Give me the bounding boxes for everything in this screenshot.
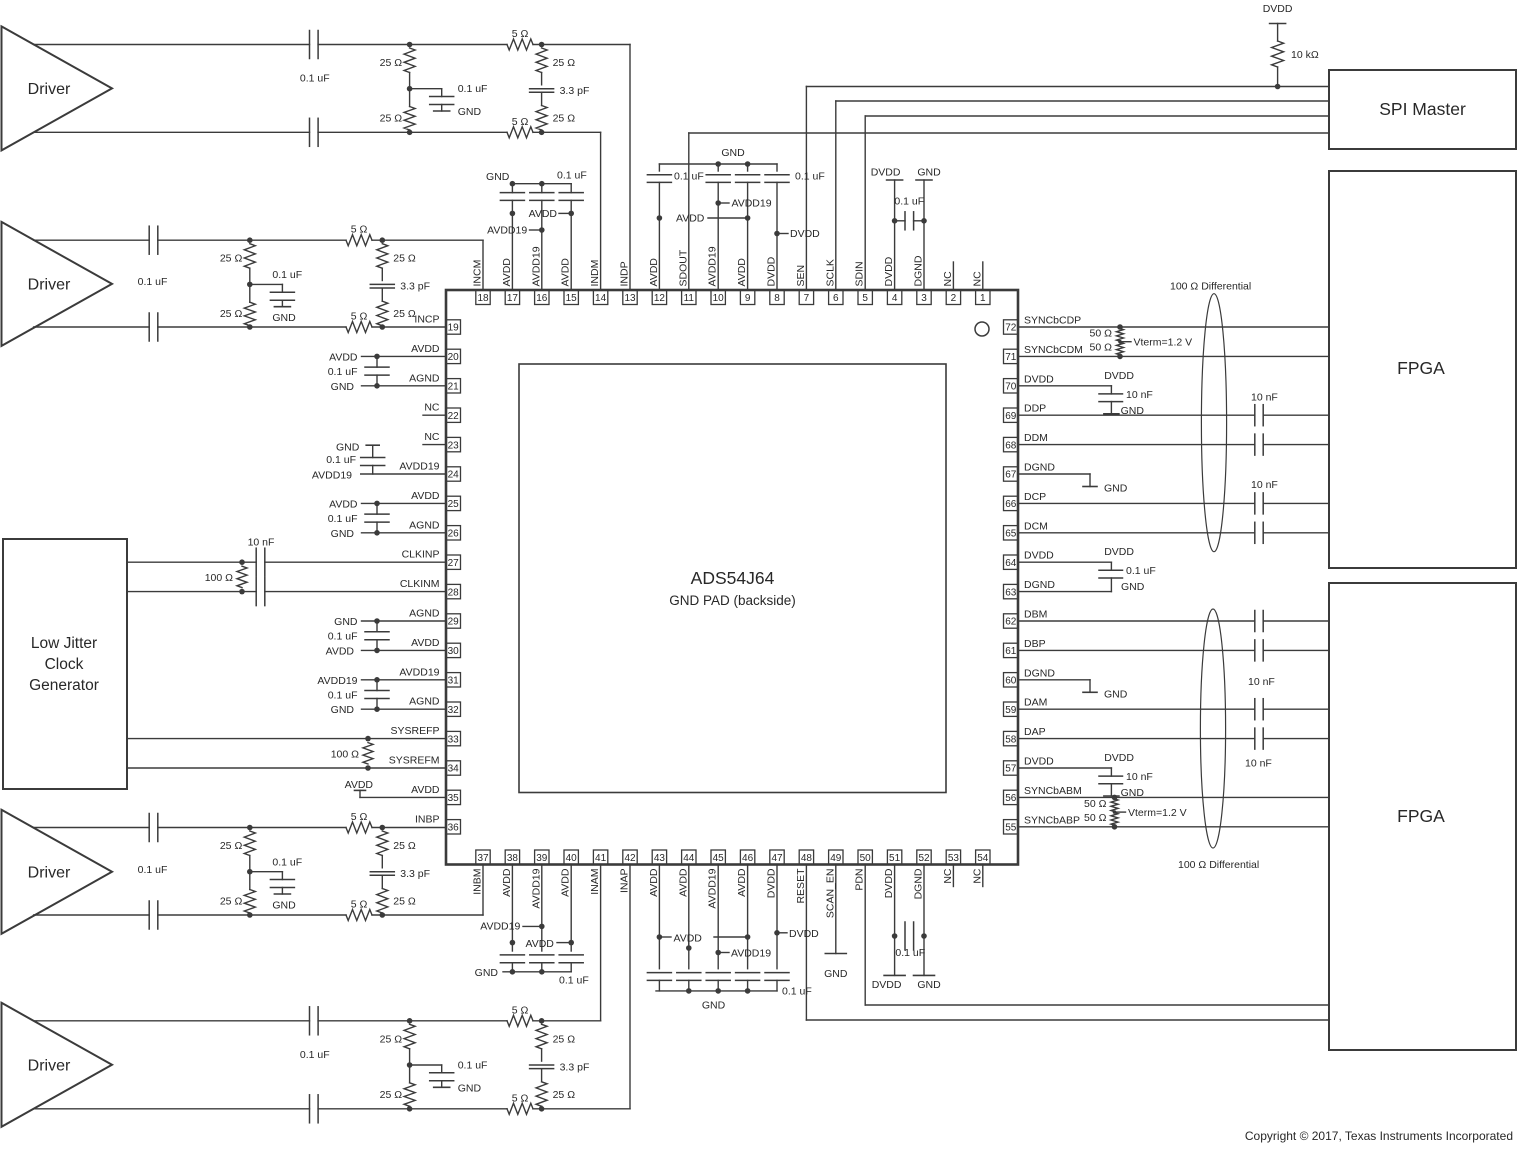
svg-text:1: 1 [980, 293, 986, 304]
svg-text:AVDD: AVDD [736, 868, 748, 897]
svg-text:0.1 uF: 0.1 uF [300, 1049, 330, 1061]
svg-text:7: 7 [804, 293, 810, 304]
svg-text:AVDD: AVDD [526, 938, 555, 950]
svg-text:55: 55 [1005, 823, 1017, 834]
svg-text:FPGA: FPGA [1397, 358, 1445, 378]
svg-text:11: 11 [684, 293, 695, 304]
svg-text:5 Ω: 5 Ω [512, 1004, 529, 1016]
svg-text:46: 46 [742, 853, 754, 864]
svg-text:0.1 uF: 0.1 uF [328, 690, 358, 702]
svg-text:27: 27 [448, 558, 460, 569]
svg-text:25 Ω: 25 Ω [393, 896, 416, 908]
svg-text:GND: GND [272, 312, 296, 324]
svg-text:4: 4 [892, 293, 898, 304]
svg-text:19: 19 [448, 323, 460, 334]
svg-text:0.1 uF: 0.1 uF [795, 171, 825, 183]
svg-text:DCM: DCM [1024, 520, 1048, 532]
svg-text:10 nF: 10 nF [1245, 758, 1272, 770]
svg-text:25 Ω: 25 Ω [380, 57, 403, 69]
svg-text:AVDD: AVDD [676, 213, 705, 225]
svg-text:NC: NC [942, 271, 954, 287]
svg-text:SEN: SEN [795, 265, 807, 287]
svg-text:GND PAD (backside): GND PAD (backside) [669, 593, 796, 608]
svg-text:AVDD: AVDD [501, 258, 513, 287]
svg-text:DVDD: DVDD [883, 868, 895, 898]
svg-text:8: 8 [774, 293, 780, 304]
svg-text:GND: GND [336, 442, 360, 454]
svg-text:9: 9 [745, 293, 751, 304]
svg-text:DVDD: DVDD [1104, 752, 1134, 764]
svg-text:DAP: DAP [1024, 726, 1046, 738]
svg-text:59: 59 [1005, 705, 1017, 716]
svg-text:AVDD: AVDD [648, 258, 660, 287]
svg-text:64: 64 [1005, 558, 1017, 569]
svg-text:GND: GND [486, 171, 510, 183]
svg-text:Driver: Driver [28, 81, 71, 98]
svg-text:70: 70 [1005, 382, 1017, 393]
svg-text:0.1 uF: 0.1 uF [326, 454, 356, 466]
svg-text:AVDD19: AVDD19 [707, 246, 719, 286]
svg-text:CLKINP: CLKINP [402, 549, 440, 561]
svg-text:AVDD: AVDD [411, 637, 440, 649]
svg-text:0.1 uF: 0.1 uF [138, 864, 168, 876]
svg-text:DVDD: DVDD [789, 928, 819, 940]
svg-text:GND: GND [475, 967, 499, 979]
svg-text:AVDD19: AVDD19 [707, 868, 719, 908]
svg-text:SYNCbCDP: SYNCbCDP [1024, 315, 1081, 327]
svg-text:50 Ω: 50 Ω [1090, 342, 1113, 354]
svg-text:Clock: Clock [45, 656, 84, 673]
svg-text:DDM: DDM [1024, 432, 1048, 444]
svg-text:61: 61 [1005, 646, 1017, 657]
svg-text:6: 6 [833, 293, 839, 304]
svg-text:AVDD: AVDD [560, 868, 572, 897]
svg-text:0.1 uF: 0.1 uF [894, 196, 924, 208]
svg-text:10 nF: 10 nF [1126, 771, 1153, 783]
svg-text:INDM: INDM [589, 260, 601, 287]
svg-text:5 Ω: 5 Ω [351, 311, 368, 323]
svg-text:3.3 pF: 3.3 pF [400, 868, 430, 880]
svg-text:DVDD: DVDD [871, 167, 901, 179]
svg-text:AVDD: AVDD [736, 258, 748, 287]
svg-text:INBP: INBP [415, 813, 440, 825]
svg-text:25 Ω: 25 Ω [553, 113, 576, 125]
svg-text:Driver: Driver [28, 276, 71, 293]
svg-text:38: 38 [507, 853, 519, 864]
svg-text:NC: NC [942, 868, 954, 884]
svg-text:21: 21 [448, 382, 460, 393]
svg-text:10 nF: 10 nF [1251, 392, 1278, 404]
svg-text:2: 2 [951, 293, 957, 304]
svg-text:5 Ω: 5 Ω [351, 899, 368, 911]
svg-text:GND: GND [1121, 787, 1145, 799]
svg-text:DBM: DBM [1024, 609, 1047, 621]
svg-text:54: 54 [977, 853, 989, 864]
svg-text:Vterm=1.2 V: Vterm=1.2 V [1134, 337, 1193, 349]
svg-text:44: 44 [683, 853, 695, 864]
svg-text:SYNCbCDM: SYNCbCDM [1024, 344, 1083, 356]
svg-text:DGND: DGND [1024, 579, 1055, 591]
svg-text:GND: GND [1121, 581, 1145, 593]
svg-text:29: 29 [448, 617, 460, 628]
svg-text:67: 67 [1005, 470, 1017, 481]
svg-text:43: 43 [654, 853, 666, 864]
svg-text:ADS54J64: ADS54J64 [691, 568, 775, 588]
svg-text:GND: GND [1121, 405, 1145, 417]
svg-text:Low Jitter: Low Jitter [31, 635, 97, 652]
svg-text:68: 68 [1005, 440, 1017, 451]
svg-text:45: 45 [713, 853, 725, 864]
svg-text:SYNCbABP: SYNCbABP [1024, 814, 1080, 826]
svg-text:AVDD19: AVDD19 [487, 225, 527, 237]
svg-text:NC: NC [424, 431, 440, 443]
svg-text:SCLK: SCLK [824, 259, 836, 286]
svg-text:20: 20 [448, 352, 460, 363]
svg-text:DVDD: DVDD [1263, 3, 1293, 15]
svg-text:10: 10 [713, 293, 725, 304]
svg-text:0.1 uF: 0.1 uF [458, 83, 488, 95]
svg-text:Copyright © 2017, Texas Instru: Copyright © 2017, Texas Instruments Inco… [1245, 1129, 1513, 1143]
svg-text:56: 56 [1005, 793, 1017, 804]
svg-text:100 Ω Differential: 100 Ω Differential [1178, 859, 1259, 871]
svg-text:DVDD: DVDD [790, 228, 820, 240]
svg-text:DVDD: DVDD [766, 256, 778, 286]
svg-text:AVDD: AVDD [501, 868, 513, 897]
svg-text:GND: GND [721, 147, 745, 159]
svg-text:Driver: Driver [28, 1057, 71, 1074]
svg-text:25 Ω: 25 Ω [393, 840, 416, 852]
svg-text:AVDD19: AVDD19 [312, 470, 352, 482]
svg-text:53: 53 [948, 853, 960, 864]
svg-text:DVDD: DVDD [872, 979, 902, 991]
svg-text:25 Ω: 25 Ω [380, 113, 403, 125]
svg-text:32: 32 [448, 705, 460, 716]
svg-text:NC: NC [971, 868, 983, 884]
svg-text:66: 66 [1005, 499, 1017, 510]
svg-text:AVDD19: AVDD19 [399, 666, 439, 678]
svg-text:AVDD: AVDD [677, 868, 689, 897]
svg-text:100 Ω Differential: 100 Ω Differential [1170, 281, 1251, 293]
svg-text:SDIN: SDIN [854, 261, 866, 286]
svg-text:10 nF: 10 nF [248, 537, 275, 549]
svg-text:23: 23 [448, 440, 460, 451]
svg-text:DDP: DDP [1024, 403, 1046, 415]
svg-text:25 Ω: 25 Ω [553, 57, 576, 69]
svg-text:AVDD: AVDD [411, 490, 440, 502]
svg-text:GND: GND [1104, 688, 1128, 700]
svg-text:25: 25 [448, 499, 460, 510]
svg-text:AGND: AGND [409, 608, 440, 620]
svg-text:69: 69 [1005, 411, 1017, 422]
svg-text:3.3 pF: 3.3 pF [560, 85, 590, 97]
svg-text:15: 15 [566, 293, 578, 304]
svg-text:INBM: INBM [472, 869, 484, 895]
svg-text:DGND: DGND [913, 868, 925, 899]
svg-text:28: 28 [448, 587, 460, 598]
svg-text:58: 58 [1005, 734, 1017, 745]
svg-text:INCP: INCP [414, 314, 439, 326]
svg-text:GND: GND [917, 979, 941, 991]
svg-text:AVDD19: AVDD19 [731, 948, 771, 960]
svg-text:25 Ω: 25 Ω [553, 1033, 576, 1045]
svg-text:51: 51 [889, 853, 901, 864]
svg-text:25 Ω: 25 Ω [220, 840, 243, 852]
svg-text:INAP: INAP [619, 869, 631, 894]
svg-text:GND: GND [331, 528, 355, 540]
svg-text:DVDD: DVDD [1024, 756, 1054, 768]
svg-text:AVDD: AVDD [674, 933, 703, 945]
svg-text:AGND: AGND [409, 696, 440, 708]
svg-text:100 Ω: 100 Ω [205, 572, 233, 584]
svg-text:FPGA: FPGA [1397, 806, 1445, 826]
svg-text:SYSREFP: SYSREFP [390, 725, 439, 737]
svg-text:31: 31 [448, 676, 460, 687]
svg-text:10 nF: 10 nF [1126, 389, 1153, 401]
svg-text:50 Ω: 50 Ω [1084, 812, 1107, 824]
svg-text:Generator: Generator [29, 677, 99, 694]
svg-text:60: 60 [1005, 676, 1017, 687]
svg-text:25 Ω: 25 Ω [393, 308, 416, 320]
svg-text:0.1 uF: 0.1 uF [328, 366, 358, 378]
svg-text:AVDD19: AVDD19 [317, 675, 357, 687]
svg-text:0.1 uF: 0.1 uF [1126, 565, 1156, 577]
svg-text:22: 22 [448, 411, 460, 422]
svg-text:33: 33 [448, 734, 460, 745]
svg-text:AVDD: AVDD [329, 498, 358, 510]
svg-text:NC: NC [971, 271, 983, 287]
svg-text:DVDD: DVDD [1104, 370, 1134, 382]
svg-text:SYNCbABM: SYNCbABM [1024, 785, 1082, 797]
svg-text:INCM: INCM [472, 260, 484, 287]
svg-text:AVDD: AVDD [345, 779, 374, 791]
svg-text:39: 39 [536, 853, 548, 864]
svg-text:5 Ω: 5 Ω [512, 1092, 529, 1104]
svg-text:5 Ω: 5 Ω [351, 224, 368, 236]
svg-text:10 nF: 10 nF [1248, 676, 1275, 688]
svg-text:AVDD: AVDD [326, 645, 355, 657]
svg-text:GND: GND [331, 704, 355, 716]
svg-text:0.1 uF: 0.1 uF [674, 171, 704, 183]
svg-text:37: 37 [477, 853, 489, 864]
svg-text:25 Ω: 25 Ω [220, 308, 243, 320]
svg-text:3.3 pF: 3.3 pF [400, 281, 430, 293]
svg-text:GND: GND [702, 1000, 726, 1012]
svg-text:NC: NC [424, 402, 440, 414]
svg-text:SYSREFM: SYSREFM [389, 755, 440, 767]
svg-text:5 Ω: 5 Ω [351, 811, 368, 823]
svg-text:DVDD: DVDD [1024, 550, 1054, 562]
svg-text:AGND: AGND [409, 519, 440, 531]
svg-text:3.3 pF: 3.3 pF [560, 1061, 590, 1073]
svg-text:0.1 uF: 0.1 uF [559, 975, 589, 987]
svg-text:17: 17 [507, 293, 519, 304]
svg-text:34: 34 [448, 764, 460, 775]
svg-text:71: 71 [1005, 352, 1017, 363]
svg-text:0.1 uF: 0.1 uF [782, 986, 812, 998]
svg-text:0.1 uF: 0.1 uF [458, 1059, 488, 1071]
svg-text:GND: GND [458, 1082, 482, 1094]
svg-text:AVDD19: AVDD19 [530, 868, 542, 908]
svg-text:57: 57 [1005, 764, 1017, 775]
svg-text:AVDD19: AVDD19 [530, 246, 542, 286]
svg-text:63: 63 [1005, 587, 1017, 598]
svg-text:25 Ω: 25 Ω [380, 1089, 403, 1101]
svg-text:GND: GND [334, 616, 358, 628]
svg-text:DVDD: DVDD [1024, 373, 1054, 385]
svg-text:Vterm=1.2 V: Vterm=1.2 V [1128, 807, 1187, 819]
svg-text:DVDD: DVDD [883, 256, 895, 286]
svg-text:PDN: PDN [854, 869, 866, 891]
svg-text:26: 26 [448, 529, 460, 540]
svg-text:DCP: DCP [1024, 491, 1046, 503]
svg-text:Driver: Driver [28, 864, 71, 881]
svg-text:SCAN_EN: SCAN_EN [824, 869, 836, 919]
svg-text:AVDD: AVDD [560, 258, 572, 287]
svg-text:25 Ω: 25 Ω [220, 253, 243, 265]
svg-text:AGND: AGND [409, 372, 440, 384]
svg-text:72: 72 [1005, 323, 1017, 334]
svg-text:SPI Master: SPI Master [1379, 99, 1466, 119]
svg-text:AVDD: AVDD [648, 868, 660, 897]
svg-text:65: 65 [1005, 529, 1017, 540]
svg-text:3: 3 [921, 293, 927, 304]
svg-text:RESET: RESET [795, 868, 807, 904]
svg-text:DAM: DAM [1024, 697, 1047, 709]
svg-text:DGND: DGND [1024, 462, 1055, 474]
svg-text:0.1 uF: 0.1 uF [300, 72, 330, 84]
svg-text:18: 18 [477, 293, 489, 304]
svg-text:42: 42 [624, 853, 636, 864]
svg-text:AVDD: AVDD [529, 208, 558, 220]
svg-text:5 Ω: 5 Ω [512, 28, 529, 40]
svg-text:DGND: DGND [1024, 667, 1055, 679]
svg-text:0.1 uF: 0.1 uF [272, 857, 302, 869]
svg-text:INAM: INAM [589, 869, 601, 895]
svg-text:GND: GND [458, 106, 482, 118]
svg-text:10 kΩ: 10 kΩ [1291, 49, 1319, 61]
svg-text:SDOUT: SDOUT [677, 249, 689, 286]
svg-text:62: 62 [1005, 617, 1017, 628]
svg-text:13: 13 [624, 293, 636, 304]
svg-text:47: 47 [771, 853, 783, 864]
svg-text:0.1 uF: 0.1 uF [272, 269, 302, 281]
svg-text:16: 16 [536, 293, 548, 304]
svg-text:0.1 uF: 0.1 uF [328, 513, 358, 525]
svg-text:GND: GND [331, 381, 355, 393]
svg-text:25 Ω: 25 Ω [220, 896, 243, 908]
svg-text:0.1 uF: 0.1 uF [895, 947, 925, 959]
svg-text:DVDD: DVDD [1104, 546, 1134, 558]
svg-text:0.1 uF: 0.1 uF [557, 170, 587, 182]
svg-text:12: 12 [654, 293, 666, 304]
svg-text:AVDD19: AVDD19 [732, 198, 772, 210]
svg-text:CLKINM: CLKINM [400, 578, 440, 590]
svg-text:AVDD19: AVDD19 [480, 921, 520, 933]
svg-text:14: 14 [595, 293, 607, 304]
svg-text:AVDD19: AVDD19 [399, 461, 439, 473]
svg-text:30: 30 [448, 646, 460, 657]
svg-text:AVDD: AVDD [411, 343, 440, 355]
svg-text:GND: GND [824, 968, 848, 980]
svg-text:49: 49 [830, 853, 842, 864]
svg-text:50: 50 [860, 853, 872, 864]
svg-text:DGND: DGND [913, 255, 925, 286]
svg-text:36: 36 [448, 823, 460, 834]
svg-text:AVDD: AVDD [329, 351, 358, 363]
svg-text:40: 40 [566, 853, 578, 864]
svg-text:25 Ω: 25 Ω [393, 253, 416, 265]
svg-text:50 Ω: 50 Ω [1090, 328, 1113, 340]
svg-text:GND: GND [272, 900, 296, 912]
svg-text:41: 41 [595, 853, 607, 864]
svg-text:25 Ω: 25 Ω [553, 1089, 576, 1101]
svg-text:25 Ω: 25 Ω [380, 1033, 403, 1045]
svg-text:DVDD: DVDD [766, 868, 778, 898]
svg-text:INDP: INDP [619, 261, 631, 286]
svg-text:10 nF: 10 nF [1251, 479, 1278, 491]
svg-text:52: 52 [918, 853, 930, 864]
svg-text:GND: GND [917, 167, 941, 179]
svg-text:0.1 uF: 0.1 uF [328, 631, 358, 643]
svg-text:50 Ω: 50 Ω [1084, 798, 1107, 810]
svg-text:0.1 uF: 0.1 uF [138, 276, 168, 288]
svg-text:100 Ω: 100 Ω [331, 748, 359, 760]
svg-text:5 Ω: 5 Ω [512, 116, 529, 128]
svg-text:GND: GND [1104, 483, 1128, 495]
svg-text:24: 24 [448, 470, 460, 481]
svg-text:AVDD: AVDD [411, 784, 440, 796]
svg-text:5: 5 [862, 293, 868, 304]
svg-text:DBP: DBP [1024, 638, 1046, 650]
svg-text:48: 48 [801, 853, 813, 864]
svg-text:35: 35 [448, 793, 460, 804]
